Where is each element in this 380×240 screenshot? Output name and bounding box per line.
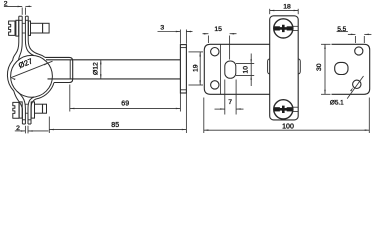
svg-text:18: 18 [283, 3, 291, 10]
svg-text:19: 19 [192, 64, 199, 72]
svg-text:2: 2 [4, 1, 8, 8]
svg-text:5.5: 5.5 [337, 26, 346, 33]
svg-text:3: 3 [160, 24, 164, 31]
svg-text:69: 69 [121, 100, 129, 107]
svg-text:2: 2 [16, 125, 20, 132]
svg-text:10: 10 [242, 66, 249, 74]
svg-text:Ø5.1: Ø5.1 [330, 100, 344, 107]
svg-text:15: 15 [214, 26, 222, 33]
svg-text:85: 85 [111, 122, 119, 129]
svg-text:30: 30 [316, 63, 323, 71]
svg-text:100: 100 [282, 124, 294, 131]
svg-text:Ø12: Ø12 [92, 62, 99, 75]
svg-text:7: 7 [228, 99, 232, 106]
